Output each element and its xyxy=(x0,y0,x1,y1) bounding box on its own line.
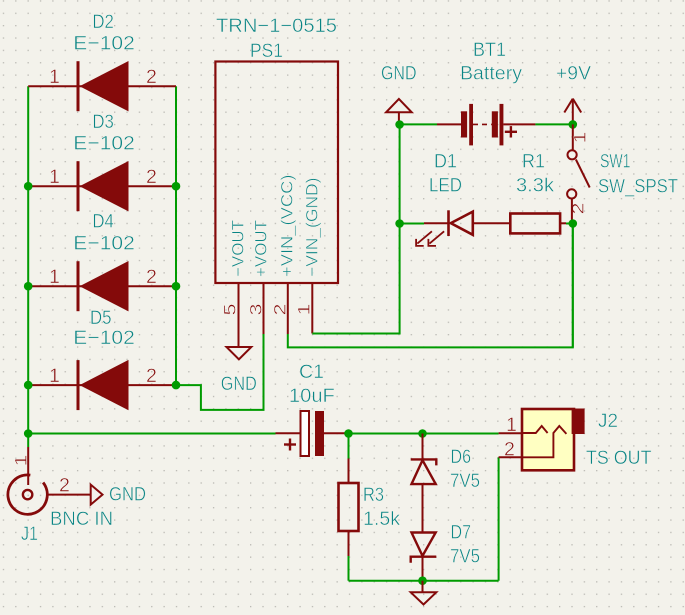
svg-text:2: 2 xyxy=(146,166,157,188)
svg-text:Battery: Battery xyxy=(460,62,522,84)
ground symbol bottom xyxy=(411,581,437,605)
wire SW1 to vin row xyxy=(572,224,574,348)
zener diode D6 xyxy=(411,434,480,533)
svg-text:E−102: E−102 xyxy=(73,327,135,349)
svg-text:1: 1 xyxy=(12,455,31,467)
wire led row left xyxy=(400,223,424,225)
diode D2 pin leads xyxy=(28,85,176,87)
svg-text:2: 2 xyxy=(146,365,157,387)
PS1 pin 2 stub xyxy=(287,283,289,334)
LED D1 xyxy=(416,150,510,246)
power symbol +9V xyxy=(556,62,591,124)
svg-text:+VOUT: +VOUT xyxy=(253,220,271,277)
svg-text:2: 2 xyxy=(146,266,157,288)
svg-text:GND: GND xyxy=(109,483,146,505)
diode D5 xyxy=(49,307,157,410)
PS1 pin 3 stub xyxy=(263,283,265,334)
junction D4 right xyxy=(172,282,181,291)
power symbol GND top xyxy=(381,63,417,125)
svg-text:5: 5 xyxy=(221,304,240,316)
junction D5 left xyxy=(24,381,33,390)
wire C1 row xyxy=(28,433,275,435)
battery BT1 xyxy=(437,39,535,145)
svg-text:C1: C1 xyxy=(299,361,324,383)
wire R1 to switch net xyxy=(566,223,573,225)
wire PS1 pin2 to switch xyxy=(288,224,573,348)
connector J2 xyxy=(499,409,652,471)
diode D2 xyxy=(49,11,157,111)
svg-text:TS OUT: TS OUT xyxy=(586,447,652,469)
svg-text:D3: D3 xyxy=(92,111,114,133)
svg-text:1: 1 xyxy=(295,304,314,316)
svg-text:GND: GND xyxy=(381,63,417,85)
junction D3 left xyxy=(24,182,33,191)
svg-text:TRN−1−0515: TRN−1−0515 xyxy=(216,15,337,37)
wire J2 pin2 vertical xyxy=(498,457,500,580)
zener diode D7 xyxy=(411,521,480,581)
svg-text:SW_SPST: SW_SPST xyxy=(598,175,678,197)
wire bottom row xyxy=(349,580,499,582)
svg-text:−VIN_(GND): −VIN_(GND) xyxy=(304,178,322,278)
junction D4 left xyxy=(24,282,33,291)
diode D4 xyxy=(49,211,157,312)
svg-text:D6: D6 xyxy=(451,446,472,468)
svg-text:LED: LED xyxy=(429,175,462,197)
wire gnd to battery xyxy=(400,123,437,125)
power module PS1 box xyxy=(215,62,338,284)
junction R1 right xyxy=(569,219,578,228)
junction D3 right xyxy=(172,182,181,191)
diode D5 pin leads xyxy=(28,384,176,386)
svg-text:+9V: +9V xyxy=(556,62,591,84)
PS1 pin 5 stub xyxy=(238,283,240,347)
svg-text:D1: D1 xyxy=(434,150,457,172)
wire right vertical bus xyxy=(175,86,177,385)
diode D4 pin leads xyxy=(28,285,176,287)
svg-text:SW1: SW1 xyxy=(600,150,631,172)
svg-text:D5: D5 xyxy=(90,307,112,329)
resistor R1 xyxy=(510,150,566,233)
diode D3 pin leads xyxy=(28,185,176,187)
svg-text:7V5: 7V5 xyxy=(450,545,480,567)
diode D3 xyxy=(49,111,157,212)
junction led left xyxy=(395,219,404,228)
wire C1 to J2 pin1 xyxy=(349,433,499,435)
junction D5 right xyxy=(172,381,181,390)
svg-text:1: 1 xyxy=(49,365,60,387)
junction D6 top xyxy=(418,429,427,438)
svg-text:R1: R1 xyxy=(522,150,545,172)
svg-text:D7: D7 xyxy=(451,521,472,543)
wire PS1 pin1 to gnd net xyxy=(312,125,399,334)
svg-text:E−102: E−102 xyxy=(73,232,135,254)
ground symbol below PS1 xyxy=(221,347,257,395)
svg-text:BNC IN: BNC IN xyxy=(50,508,113,530)
svg-text:1: 1 xyxy=(506,414,517,436)
svg-text:2: 2 xyxy=(271,304,290,316)
svg-text:1: 1 xyxy=(49,266,60,288)
resistor R3 xyxy=(339,434,401,581)
svg-text:R3: R3 xyxy=(363,484,384,506)
svg-text:D4: D4 xyxy=(92,211,114,233)
svg-text:1.5k: 1.5k xyxy=(363,508,400,530)
svg-text:E−102: E−102 xyxy=(73,133,135,155)
svg-text:1: 1 xyxy=(49,66,60,88)
svg-text:J1: J1 xyxy=(21,523,38,545)
svg-text:BT1: BT1 xyxy=(473,39,506,61)
svg-text:J2: J2 xyxy=(598,410,618,432)
switch SW1 xyxy=(567,124,678,223)
wire left vertical bus xyxy=(27,86,29,433)
svg-text:7V5: 7V5 xyxy=(450,470,480,492)
svg-text:−VOUT: −VOUT xyxy=(230,220,248,277)
connector J1 BNC xyxy=(8,434,146,546)
svg-text:2: 2 xyxy=(146,66,157,88)
svg-text:1: 1 xyxy=(571,132,590,144)
junction bottom xyxy=(418,576,427,585)
svg-text:GND: GND xyxy=(221,373,257,395)
capacitor C1 xyxy=(276,361,349,456)
wire PS1 pin3 to diode bus xyxy=(176,334,264,410)
PS1 pin 1 stub xyxy=(311,283,313,334)
wire battery to +9V xyxy=(535,123,572,125)
svg-text:1: 1 xyxy=(49,166,60,188)
svg-text:3.3k: 3.3k xyxy=(516,175,554,197)
junction +9V xyxy=(569,120,578,129)
svg-text:3: 3 xyxy=(247,304,266,316)
junction gnd top xyxy=(395,120,404,129)
svg-text:2: 2 xyxy=(504,438,515,460)
svg-text:D2: D2 xyxy=(92,11,114,33)
svg-text:2: 2 xyxy=(59,474,70,496)
junction R3 top xyxy=(344,429,353,438)
junction C1 row left xyxy=(24,429,33,438)
svg-text:E−102: E−102 xyxy=(73,33,135,55)
svg-text:PS1: PS1 xyxy=(250,40,283,62)
svg-text:+VIN_(VCC): +VIN_(VCC) xyxy=(279,175,297,278)
svg-text:10uF: 10uF xyxy=(289,385,335,407)
